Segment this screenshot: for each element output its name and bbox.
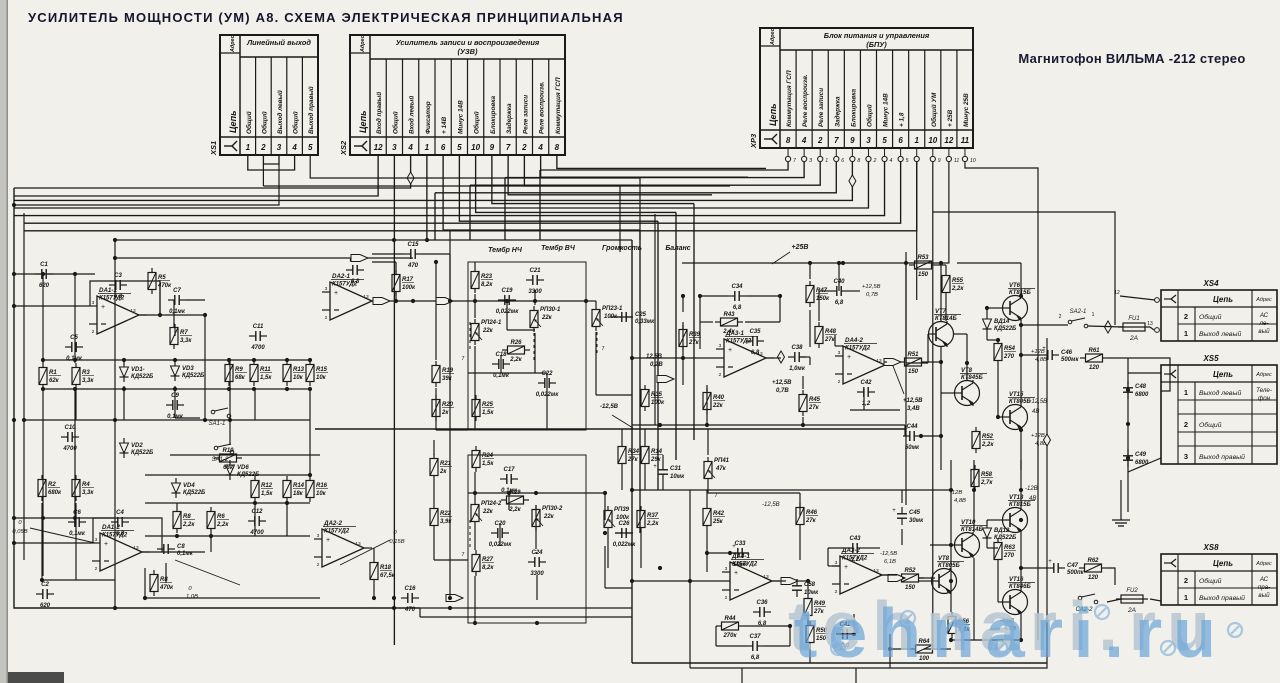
- svg-text:22к: 22к: [482, 509, 494, 515]
- resistor R10: [214, 454, 242, 462]
- svg-text:2: 2: [1059, 314, 1062, 320]
- svg-text:7: 7: [601, 346, 604, 352]
- diamond right: [1044, 434, 1051, 446]
- svg-text:(БПУ): (БПУ): [866, 40, 887, 49]
- svg-text:30мк: 30мк: [909, 518, 924, 524]
- svg-text:Теле-: Теле-: [1256, 387, 1272, 394]
- watermark circles: [831, 641, 845, 655]
- feedback DA1-2: [93, 518, 162, 552]
- svg-text:R43: R43: [723, 312, 735, 318]
- svg-text:6,1В: 6,1В: [884, 559, 896, 565]
- svg-text:R46: R46: [806, 510, 818, 516]
- svg-text:КТ845Б: КТ845Б: [961, 375, 983, 381]
- wire XP3 +1,8 vertical: [916, 162, 918, 301]
- svg-text:2: 2: [817, 136, 823, 145]
- diode VD12: [983, 523, 992, 543]
- svg-text:+: +: [653, 464, 657, 470]
- svg-text:+: +: [844, 564, 848, 571]
- vertical x906: [905, 252, 907, 363]
- capacitor C35: [746, 336, 764, 346]
- svg-text:270: 270: [1003, 553, 1015, 559]
- svg-text:VD3: VD3: [182, 366, 194, 372]
- svg-text:68к: 68к: [235, 375, 246, 381]
- wire lower volume: [586, 493, 632, 588]
- svg-text:R6: R6: [217, 514, 225, 520]
- svg-text:С1: С1: [40, 262, 48, 268]
- capacitor C18: [492, 359, 510, 369]
- svg-text:R8: R8: [183, 514, 191, 520]
- svg-text:7: 7: [506, 143, 511, 152]
- svg-text:50мк: 50мк: [905, 445, 920, 451]
- svg-text:27к: 27к: [688, 340, 700, 346]
- svg-text:С25: С25: [635, 312, 647, 318]
- svg-text:2: 2: [1184, 420, 1188, 429]
- svg-text:XS4: XS4: [1202, 279, 1219, 288]
- resistor R1: [39, 363, 47, 389]
- svg-text:+: +: [104, 541, 108, 548]
- svg-text:R16: R16: [316, 483, 328, 489]
- long vertical x394 region: [449, 230, 451, 598]
- svg-text:Общий: Общий: [245, 111, 253, 134]
- svg-text:1: 1: [425, 143, 430, 152]
- resistor R53: [909, 261, 937, 269]
- svg-text:Адрес: Адрес: [1255, 561, 1272, 567]
- diode VD4: [172, 478, 181, 498]
- svg-text:3: 3: [317, 533, 320, 539]
- svg-text:120: 120: [1088, 575, 1099, 581]
- svg-text:+12,5В: +12,5В: [862, 284, 881, 290]
- svg-text:2: 2: [260, 143, 266, 152]
- svg-text:Вход левый: Вход левый: [408, 96, 416, 134]
- capacitor C6: [68, 517, 86, 527]
- resistor R16: [306, 476, 314, 502]
- svg-text:R55: R55: [952, 278, 964, 284]
- svg-text:КТ814Б: КТ814Б: [961, 527, 983, 533]
- svg-text:6,8: 6,8: [733, 305, 742, 311]
- wire to XS8: [1150, 599, 1161, 601]
- svg-text:С9: С9: [171, 393, 179, 399]
- resistor R29: [501, 496, 529, 504]
- svg-text:2,2к: 2,2к: [981, 442, 994, 448]
- svg-text:2,2к: 2,2к: [182, 522, 195, 528]
- svg-text:РП24-1: РП24-1: [481, 320, 502, 326]
- resistor R55: [942, 271, 950, 297]
- svg-text:VT8: VT8: [938, 556, 950, 562]
- left block wire grid: [14, 258, 413, 576]
- svg-text:2,2к: 2,2к: [646, 521, 659, 527]
- svg-text:R9: R9: [235, 367, 243, 373]
- svg-text:С6: С6: [73, 510, 81, 516]
- svg-text:С24: С24: [531, 550, 543, 556]
- svg-text:С8: С8: [177, 544, 185, 550]
- bottom bus upper channel: [420, 607, 632, 609]
- resistor R39: [679, 325, 687, 351]
- resistor R3: [72, 363, 80, 389]
- svg-text:13: 13: [130, 308, 136, 314]
- gang link dashes: [470, 322, 597, 554]
- transistor VT8: [931, 568, 957, 594]
- wire DA1-2 input: [14, 542, 92, 544]
- svg-text:6,8: 6,8: [751, 655, 760, 661]
- svg-text:4: 4: [291, 143, 297, 152]
- svg-text:2к: 2к: [441, 410, 449, 416]
- h bus y429 long rail: [315, 428, 905, 430]
- svg-text:РП23-1: РП23-1: [602, 306, 623, 312]
- svg-text:R25: R25: [482, 402, 494, 408]
- svg-text:+: +: [1042, 346, 1046, 352]
- transistor VT16: [1002, 589, 1028, 615]
- connector table ХР3: [760, 28, 973, 148]
- svg-text:ХS8: ХS8: [1202, 543, 1219, 552]
- svg-text:6,8: 6,8: [351, 279, 360, 285]
- resistor R9: [225, 360, 233, 386]
- connector table XS5: [1161, 354, 1277, 464]
- svg-text:12,5В: 12,5В: [646, 354, 663, 360]
- resistor R26: [502, 346, 530, 354]
- svg-text:С47: С47: [1067, 563, 1079, 569]
- svg-text:КД522Б: КД522Б: [131, 374, 154, 380]
- dark box bottom-left corner: [8, 672, 64, 683]
- svg-text:500мк: 500мк: [1061, 357, 1079, 363]
- resistor R22: [430, 504, 438, 530]
- wire XS4 pin12: [1120, 296, 1155, 300]
- arrow on bottom bus: [446, 595, 463, 602]
- svg-text:3: 3: [95, 537, 98, 543]
- svg-text:Блокировка: Блокировка: [850, 88, 857, 127]
- resistor R48: [815, 322, 823, 348]
- svg-text:8,2к: 8,2к: [482, 565, 494, 571]
- svg-text:4: 4: [537, 143, 543, 152]
- svg-text:R7: R7: [180, 330, 188, 336]
- svg-text:2: 2: [1184, 576, 1188, 585]
- potentiometer RP23-1: [592, 305, 600, 331]
- capacitor C12: [248, 516, 266, 526]
- svg-text:Выход правый: Выход правый: [307, 86, 315, 134]
- capacitor C13: [346, 265, 364, 275]
- resistor R14mid: [641, 442, 649, 468]
- svg-text:0,1мк: 0,1мк: [167, 414, 184, 420]
- tone block outline: [468, 262, 586, 430]
- wire to output switch right: [933, 212, 1115, 325]
- svg-text:9: 9: [938, 158, 941, 164]
- resistor R51: [899, 358, 927, 366]
- svg-text:Выход левый: Выход левый: [276, 90, 284, 134]
- svg-text:Тембр ВЧ: Тембр ВЧ: [541, 244, 576, 252]
- svg-text:+ 14В: + 14В: [441, 116, 448, 134]
- resistor R40: [703, 388, 711, 414]
- svg-text:Громкость: Громкость: [602, 245, 642, 252]
- wire C46 left: [1021, 354, 1041, 356]
- wire mid resistors: [621, 429, 623, 442]
- svg-text:R45: R45: [809, 397, 821, 403]
- svg-text:С11: С11: [253, 324, 264, 330]
- resistor R63: [994, 538, 1002, 564]
- svg-text:3,9к: 3,9к: [440, 519, 452, 525]
- capacitor C9: [166, 400, 184, 410]
- lower output wires: [918, 460, 1021, 640]
- svg-text:Общий: Общий: [1199, 577, 1222, 585]
- svg-text:Магнитофон ВИЛЬМА -212 стерео: Магнитофон ВИЛЬМА -212 стерео: [1018, 51, 1245, 66]
- svg-text:R44: R44: [724, 616, 736, 622]
- wire bundle from XP3 staircase to left: [14, 162, 917, 241]
- connector table XS2: [350, 35, 565, 155]
- svg-text:0,1мк: 0,1мк: [169, 309, 186, 315]
- svg-text:ле-: ле-: [1259, 320, 1269, 327]
- svg-text:R12: R12: [261, 483, 273, 489]
- svg-text:(УЗВ): (УЗВ): [458, 47, 478, 56]
- resistor R25: [472, 395, 480, 421]
- svg-text:10к: 10к: [316, 375, 327, 381]
- transistor VT10: [954, 532, 980, 558]
- op-amp DA3-1: [716, 339, 774, 378]
- capacitor C58: [792, 579, 802, 597]
- svg-text:13: 13: [355, 541, 361, 547]
- arrow symbol on signal line: [436, 298, 453, 305]
- svg-text:КД522Б: КД522Б: [183, 490, 206, 496]
- svg-text:3: 3: [392, 143, 397, 152]
- svg-text:R1: R1: [49, 370, 57, 376]
- wires from XS2 pins: [14, 155, 766, 645]
- svg-text:2: 2: [725, 595, 728, 601]
- svg-text:47к: 47к: [715, 466, 727, 472]
- XP3 pin circles: [785, 148, 975, 164]
- svg-text:XS5: XS5: [1202, 354, 1219, 363]
- resistor R52upper: [972, 427, 980, 453]
- svg-text:10: 10: [970, 158, 976, 164]
- svg-text:VT16: VT16: [1009, 577, 1024, 583]
- svg-text:0,7В: 0,7В: [776, 388, 789, 394]
- svg-text:10мк: 10мк: [670, 474, 685, 480]
- watermark tehnari.ru: [788, 587, 1227, 672]
- svg-text:ВД12: ВД12: [994, 528, 1010, 534]
- svg-text:FU1: FU1: [1128, 316, 1139, 322]
- resistor R24: [472, 446, 480, 472]
- resistor R5: [148, 268, 156, 294]
- svg-text:ХР3: ХР3: [749, 133, 758, 149]
- svg-text:R2: R2: [48, 482, 56, 488]
- svg-text:РП24-2: РП24-2: [481, 501, 502, 507]
- svg-text:VT13: VT13: [1009, 495, 1024, 501]
- svg-text:R63: R63: [1004, 545, 1016, 551]
- left edge vertical bus: [14, 188, 420, 608]
- svg-text:РП39: РП39: [614, 507, 630, 513]
- svg-text:680к: 680к: [48, 490, 62, 496]
- svg-text:Задержка: Задержка: [505, 103, 513, 134]
- arrow at DA2-1 output: [373, 298, 390, 305]
- left block lower wire grid: [14, 503, 320, 598]
- svg-text:3,3к: 3,3к: [180, 338, 192, 344]
- svg-text:1: 1: [1092, 312, 1095, 318]
- svg-text:С21: С21: [529, 268, 541, 274]
- svg-text:2,2к: 2,2к: [508, 507, 521, 513]
- svg-text:К157УД2: К157УД2: [845, 346, 871, 352]
- op-amp DA4-2: [835, 346, 893, 385]
- resistor R34: [618, 442, 626, 468]
- svg-text:3,4В: 3,4В: [907, 406, 920, 412]
- svg-text:3,3к: 3,3к: [82, 490, 94, 496]
- svg-text:Линейный выход: Линейный выход: [246, 38, 311, 47]
- wire volume pot: [586, 301, 632, 395]
- potentiometer RP24-2: [471, 500, 479, 526]
- svg-text:6800: 6800: [1135, 460, 1149, 466]
- svg-text:РП30-1: РП30-1: [540, 307, 561, 313]
- svg-text:Общий УМ: Общий УМ: [930, 92, 938, 127]
- ground symbol right: [1112, 512, 1130, 526]
- svg-text:+: +: [892, 508, 896, 514]
- svg-text:Адрес: Адрес: [1255, 372, 1272, 378]
- svg-text:Общий: Общий: [1199, 313, 1222, 321]
- transistor VT8upper: [954, 380, 980, 406]
- svg-text:2: 2: [719, 372, 722, 378]
- svg-text:470к: 470к: [157, 283, 172, 289]
- svg-text:4: 4: [890, 158, 893, 164]
- svg-text:R10: R10: [222, 448, 234, 454]
- svg-text:7: 7: [834, 136, 839, 145]
- svg-text:R34: R34: [628, 449, 640, 455]
- svg-text:13: 13: [1147, 321, 1153, 327]
- svg-text:27к: 27к: [824, 337, 836, 343]
- svg-text:4700: 4700: [249, 530, 264, 536]
- svg-text:+: +: [734, 570, 738, 577]
- svg-text:РП41: РП41: [714, 458, 730, 464]
- resistor R44: [716, 622, 744, 630]
- svg-text:1,5к: 1,5к: [482, 461, 494, 467]
- resistor R18: [370, 558, 378, 584]
- svg-text:6: 6: [841, 158, 844, 164]
- svg-text:R13: R13: [293, 367, 305, 373]
- svg-text:120: 120: [1089, 365, 1100, 371]
- svg-text:2,7к: 2,7к: [980, 480, 993, 486]
- svg-text:VD6: VD6: [237, 465, 249, 471]
- svg-text:Цепь: Цепь: [228, 111, 238, 133]
- svg-text:3: 3: [809, 158, 812, 164]
- svg-text:13: 13: [873, 568, 879, 574]
- vertical cap bus: [1127, 358, 1129, 512]
- svg-text:+12,5В: +12,5В: [1028, 399, 1047, 405]
- svg-text:620: 620: [40, 603, 51, 609]
- arrow on DA3-1 input line: [657, 376, 674, 383]
- svg-text:R39: R39: [689, 332, 701, 338]
- svg-text:0,1мк: 0,1мк: [493, 373, 510, 379]
- svg-text:Цепь: Цепь: [1213, 559, 1233, 568]
- svg-text:ДА3-1: ДА3-1: [725, 330, 744, 337]
- svg-text:5: 5: [882, 136, 887, 145]
- svg-text:13: 13: [876, 358, 882, 364]
- svg-text:R20: R20: [442, 402, 454, 408]
- svg-text:-12,5В: -12,5В: [762, 502, 780, 508]
- diode VD3: [171, 361, 180, 381]
- svg-text:1,2: 1,2: [851, 557, 860, 563]
- svg-text:4: 4: [407, 143, 413, 152]
- svg-text:3: 3: [838, 350, 841, 356]
- svg-text:Общий: Общий: [391, 111, 399, 134]
- svg-text:0,05В: 0,05В: [12, 529, 27, 535]
- svg-text:2,2к: 2,2к: [951, 286, 964, 292]
- svg-text:С46: С46: [1061, 350, 1073, 356]
- resistor R35: [641, 385, 649, 411]
- svg-text:Адрес: Адрес: [360, 35, 366, 53]
- transistor VT15upper: [1002, 404, 1028, 430]
- svg-text:Блок питания и управления: Блок питания и управления: [824, 31, 930, 40]
- svg-text:Адрес: Адрес: [230, 35, 236, 53]
- svg-text:R23: R23: [481, 274, 493, 280]
- svg-text:4: 4: [801, 136, 807, 145]
- resistor R37: [637, 506, 645, 532]
- svg-text:67,5к: 67,5к: [380, 573, 396, 579]
- svg-text:Цепь: Цепь: [1213, 370, 1233, 379]
- svg-text:470: 470: [407, 263, 419, 269]
- svg-text:С48: С48: [1135, 384, 1147, 390]
- svg-text:С44: С44: [906, 424, 918, 430]
- capacitor C45: [892, 507, 907, 525]
- capacitor C7: [168, 295, 186, 305]
- svg-text:12: 12: [944, 136, 953, 145]
- svg-text:Баланс: Баланс: [665, 245, 690, 252]
- svg-text:3: 3: [325, 286, 328, 292]
- svg-text:0,33мк: 0,33мк: [635, 319, 655, 325]
- capacitor C42: [857, 387, 875, 397]
- wire C47 left: [1046, 567, 1048, 569]
- capacitor C49: [1123, 449, 1133, 467]
- svg-text:Общий: Общий: [473, 111, 481, 134]
- svg-text:1,0мк: 1,0мк: [789, 366, 806, 372]
- svg-text:2: 2: [95, 566, 98, 572]
- svg-text:АС: АС: [1259, 576, 1269, 583]
- svg-text:10: 10: [928, 136, 937, 145]
- diode VD14: [983, 314, 992, 334]
- svg-text:3: 3: [92, 300, 95, 306]
- svg-text:22к: 22к: [541, 315, 553, 321]
- arrow after DA4-1: [781, 578, 798, 585]
- svg-text:R8: R8: [160, 577, 168, 583]
- long vertical x655: [654, 214, 656, 425]
- svg-text:R22: R22: [440, 511, 452, 517]
- svg-text:вый: вый: [1258, 328, 1270, 335]
- capacitor C47: [1047, 559, 1065, 573]
- svg-text:1: 1: [1184, 329, 1188, 338]
- second bottom rail: [420, 616, 632, 618]
- capacitor C41: [836, 629, 854, 639]
- connector table ХS8: [1161, 543, 1277, 605]
- svg-text:УСИЛИТЕЛЬ МОЩНОСТИ (УМ) А8.: УСИЛИТЕЛЬ МОЩНОСТИ (УМ) А8. СХЕМА ЭЛЕКТР…: [28, 10, 624, 25]
- capacitor C5: [65, 342, 83, 352]
- svg-text:SA2-1: SA2-1: [1070, 309, 1087, 315]
- bottom bus lower channel: [632, 662, 1047, 664]
- capacitor C37: [746, 641, 764, 651]
- svg-text:8: 8: [555, 143, 560, 152]
- svg-text:+: +: [728, 347, 732, 354]
- wire ground bus: [1120, 480, 1122, 512]
- diode VD1: [120, 362, 129, 382]
- svg-text:С37: С37: [749, 634, 761, 640]
- svg-text:КТ814Б: КТ814Б: [935, 316, 957, 322]
- svg-text:С31: С31: [670, 466, 682, 472]
- svg-text:XS2: XS2: [339, 140, 348, 156]
- wire +25V from XP3 pin 12: [682, 162, 949, 264]
- capacitor C38: [788, 352, 806, 362]
- svg-text:+25В: +25В: [792, 244, 809, 251]
- resistor R14: [283, 476, 291, 502]
- capacitor C21: [526, 275, 544, 285]
- svg-text:DA2-1: DA2-1: [332, 273, 350, 280]
- svg-text:7: 7: [461, 356, 464, 362]
- resistor R11: [250, 360, 258, 386]
- svg-text:+12В: +12В: [1031, 433, 1045, 439]
- svg-text:КТ815Б: КТ815Б: [1009, 502, 1031, 508]
- svg-text:3: 3: [835, 560, 838, 566]
- svg-text:фон: фон: [1258, 395, 1271, 402]
- op-amp DA1-1: [89, 296, 147, 335]
